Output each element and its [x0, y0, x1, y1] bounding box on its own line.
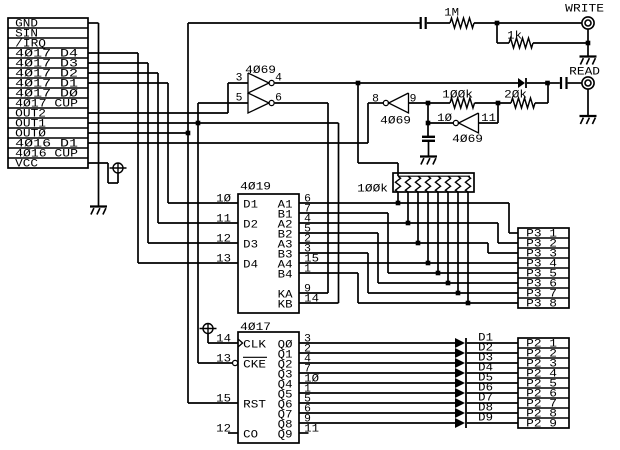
svg-text:4Ø17: 4Ø17	[240, 322, 271, 334]
svg-text:11: 11	[481, 113, 496, 125]
U3 pin name KB	[278, 300, 293, 312]
pin label 4	[275, 73, 282, 85]
label 100k (RN1)	[357, 184, 388, 196]
junction OUT1/pin5	[196, 121, 201, 126]
ground symbol (READ)	[580, 116, 597, 124]
svg-text:D1: D1	[243, 200, 258, 212]
wire OUT2 to U1A pin3	[88, 83, 248, 113]
svg-text:READ: READ	[569, 67, 600, 79]
wire RN1 column 3	[417, 192, 419, 243]
ground symbol (C3)	[420, 157, 437, 165]
U3 pin number 11	[216, 214, 231, 226]
P2 pin label 7	[526, 399, 557, 411]
resistor R4 20k	[511, 98, 535, 108]
P3 pin label 3	[526, 249, 557, 261]
U4 pin number 10 (Q4)	[304, 374, 319, 386]
diode D4	[455, 368, 465, 378]
junction OUT0	[186, 131, 191, 136]
U3 pin number 14 right	[304, 294, 319, 306]
IC U4 4017 body	[238, 332, 299, 443]
svg-text:3: 3	[236, 73, 243, 85]
wire diode to cap	[527, 82, 548, 84]
ground symbol (P1 GND)	[90, 207, 107, 215]
U4 pin name CKE	[243, 357, 267, 371]
diode D2	[455, 348, 465, 358]
U4 pin number 11 (Q9)	[304, 424, 319, 436]
wire Q4 to diode D5	[299, 382, 455, 384]
wire 4017 D2 to 4019 D2	[88, 73, 238, 223]
svg-text:4Ø69: 4Ø69	[245, 65, 276, 77]
wire diode D4 to P2-4	[467, 372, 518, 374]
diode D6	[455, 388, 465, 398]
wire RN1 column 5	[437, 192, 439, 273]
U4 pin name Q4	[278, 380, 293, 392]
wire 4017 D4 to 4019 D4	[88, 53, 238, 263]
U3 pin number 3 right	[304, 244, 311, 256]
wire GND from P1 to ground	[88, 23, 99, 207]
U4 pin name Q6	[278, 400, 293, 412]
label 100k (R3)	[442, 90, 473, 102]
connector READ jack	[582, 77, 594, 89]
wire RN1 column 4	[427, 192, 429, 263]
U3 pin name B3	[278, 250, 293, 262]
wire 4017 D1 to 4019 D1	[88, 83, 238, 203]
svg-text:VCC: VCC	[15, 159, 38, 171]
U3 pin number 10	[216, 194, 231, 206]
U3 pin name A1	[278, 200, 293, 212]
label 4017	[240, 322, 271, 334]
svg-text:P2 9: P2 9	[526, 419, 557, 431]
svg-text:11: 11	[216, 214, 231, 226]
svg-text:12: 12	[216, 234, 231, 246]
wire A4 to P3-4	[299, 262, 518, 264]
pin label 6	[275, 93, 282, 105]
connector P2	[518, 338, 569, 428]
wire Q2 to diode D3	[299, 362, 455, 364]
U4 pin name Q1	[278, 350, 293, 362]
U3 pin number 6 right	[304, 194, 311, 206]
svg-text:D2: D2	[243, 220, 258, 232]
wire diode D2 to P2-2	[467, 352, 518, 354]
junction RN1 column 2	[406, 221, 411, 226]
label D9	[478, 413, 493, 425]
op-amp U1A inverter 4069 pins 3-4	[248, 73, 274, 93]
U3 pin name D3	[243, 240, 258, 252]
U4 pin number 1 (Q5)	[304, 384, 311, 396]
svg-text:CKE: CKE	[243, 360, 266, 372]
P3 pin label 7	[526, 289, 557, 301]
P1 pin label SIN	[15, 29, 38, 41]
U4 pin number 5 (Q6)	[304, 394, 311, 406]
U3 pin name D2	[243, 220, 258, 232]
U4 pin Q9 stub	[299, 432, 309, 434]
P2 pin label 6	[526, 389, 557, 401]
wire Q0 to diode D1	[299, 342, 455, 344]
resistor network RN1 100k	[393, 173, 474, 192]
P3 pin label 1	[526, 229, 557, 241]
svg-text:5: 5	[236, 93, 243, 105]
connector WRITE jack	[582, 17, 594, 29]
wire RN1 column 7	[457, 192, 459, 293]
P1 pin label GND	[15, 19, 38, 31]
U4 pin number 15	[216, 394, 231, 406]
label 4069 (U2A)	[380, 116, 411, 128]
junction pin4/feed	[356, 81, 361, 86]
wire OUT1 bus	[88, 103, 339, 363]
U3 pin number 2 right	[304, 234, 311, 246]
P2 pin label 3	[526, 359, 557, 371]
U4 pin number 6 (Q7)	[304, 404, 311, 416]
U3 pin number 12	[216, 234, 231, 246]
label D8	[478, 403, 493, 415]
U4 pin number 2 (Q1)	[304, 344, 311, 356]
wire Q5 to diode D6	[299, 392, 455, 394]
wire R1 to WRITE jack	[474, 22, 582, 24]
P2 pin label 4	[526, 369, 557, 381]
terminal VCC	[110, 163, 127, 173]
U4 pin number 3 (Q0)	[304, 334, 311, 346]
wire diode D8 to P2-8	[467, 412, 518, 414]
U3 pin name A2	[278, 220, 293, 232]
wire 4016 D1 from U2 pin8	[88, 103, 383, 143]
P1 pin label VCC	[15, 159, 38, 171]
svg-text:1Ø: 1Ø	[216, 194, 231, 206]
connector P3	[518, 228, 569, 308]
U4 pin name CO	[243, 430, 258, 442]
wire Q1 to diode D2	[299, 352, 455, 354]
U4 pin name Q2	[278, 360, 293, 372]
junction pin10	[426, 121, 431, 126]
U4 pin name Q9	[278, 430, 293, 442]
op-amp U2B inverter 4069 pins 10-11	[453, 113, 478, 133]
wire B4 to P3-8	[299, 273, 518, 303]
wire OUT0 bus	[88, 23, 420, 403]
U4 pin name RST	[243, 400, 266, 412]
svg-text:1M: 1M	[444, 8, 459, 20]
pin label 8	[372, 94, 379, 106]
P2 pin label 1	[526, 339, 557, 351]
U4 pin number 13	[216, 354, 231, 366]
svg-text:CLK: CLK	[243, 340, 266, 352]
op-amp U1B inverter 4069 pins 5-6	[248, 93, 274, 113]
wire U1A pin4 output	[275, 83, 518, 176]
svg-text:1ØØk: 1ØØk	[442, 90, 473, 102]
svg-text:12: 12	[216, 424, 231, 436]
U3 pin number 13	[216, 254, 231, 266]
P2 pin label 8	[526, 409, 557, 421]
label 1M	[444, 8, 459, 20]
connector P1 (edge connector, 15 pins)	[8, 18, 88, 168]
capacitor C3	[422, 137, 435, 157]
wire B1 to P3-5	[299, 213, 518, 273]
svg-text:KB: KB	[278, 300, 293, 312]
junction pin9	[426, 101, 431, 106]
U3 pin number 9 right	[304, 284, 311, 296]
wire diode D9 to P2-9	[467, 422, 518, 424]
wire READ jack to ground	[587, 89, 589, 116]
label WRITE	[565, 4, 604, 16]
diode D3	[455, 358, 465, 368]
P1 pin label OUT1	[15, 119, 46, 131]
svg-text:D4: D4	[243, 260, 258, 272]
P1 pin label 4017 D4	[15, 49, 78, 61]
terminal CLK	[200, 324, 217, 334]
capacitor C2	[548, 77, 583, 89]
U3 pin name B2	[278, 230, 293, 242]
label 4069 (U1)	[245, 65, 276, 77]
U3 pin number 15 right	[304, 254, 319, 266]
svg-text:D3: D3	[243, 240, 258, 252]
wire diode D1 to P2-1	[467, 342, 518, 344]
wire RN1 column 1	[397, 192, 399, 203]
wire R4 to diode junction	[535, 83, 548, 103]
label 1k	[507, 31, 522, 43]
P3 pin label 5	[526, 269, 557, 281]
wire RN1 column 8	[467, 192, 469, 303]
P1 pin label 4017 D1	[15, 79, 78, 91]
P1 pin label OUT2	[15, 109, 46, 121]
svg-text:13: 13	[216, 354, 231, 366]
label 4019	[240, 182, 271, 194]
svg-text:P3 8: P3 8	[526, 299, 557, 311]
diode D7	[455, 398, 465, 408]
U3 pin name B1	[278, 210, 293, 222]
P2 pin label 9	[526, 419, 557, 431]
wire pin9 to R3	[409, 102, 451, 104]
U3 pin name D1	[243, 200, 258, 212]
svg-text:4Ø19: 4Ø19	[240, 182, 271, 194]
resistor R2 1k	[509, 38, 533, 48]
wire pin10 output	[428, 103, 453, 137]
wire CLK	[208, 334, 238, 344]
svg-text:14: 14	[304, 294, 319, 306]
pin label 10	[437, 113, 452, 125]
diode D5	[455, 378, 465, 388]
wire RN1 column 2	[407, 192, 409, 223]
U4 pin name Q8	[278, 420, 293, 432]
junction RN1 column 4	[426, 261, 431, 266]
P2 pin label 2	[526, 349, 557, 361]
junction R1/R2	[495, 21, 500, 26]
P1 pin label 4017 D0	[15, 89, 79, 101]
U3 pin number 7 right	[304, 204, 311, 216]
svg-text:4Ø69: 4Ø69	[452, 134, 483, 146]
pin label 3	[236, 73, 243, 85]
label D5	[478, 373, 493, 385]
U4 pin name CLK	[243, 340, 266, 352]
U3 pin name B4	[278, 270, 293, 282]
svg-text:1k: 1k	[507, 31, 522, 43]
svg-text:15: 15	[216, 394, 231, 406]
wire 4017 D3 to 4019 D3	[88, 63, 238, 243]
P3 pin label 8	[526, 299, 557, 311]
U4 pin CO stub	[228, 432, 238, 434]
wire U1B pin6 to 4019 KA	[275, 103, 328, 293]
U4 pin name Q5	[278, 390, 293, 402]
P1 pin label 4017 D3	[15, 59, 78, 71]
wire diode D3 to P2-3	[467, 362, 518, 364]
svg-text:B4: B4	[278, 270, 293, 282]
pin label 5	[236, 93, 243, 105]
wire RN1 column 6	[447, 192, 449, 283]
wire B2 to P3-6	[299, 233, 518, 283]
svg-text:Q9: Q9	[278, 430, 293, 442]
ground symbol (WRITE)	[580, 57, 597, 65]
label 4069 (U2B)	[452, 134, 483, 146]
U4 pin number 7 (Q3)	[304, 364, 311, 376]
wire diode D5 to P2-5	[467, 382, 518, 384]
wire R3 to R4	[475, 102, 512, 104]
diode cathode bar column	[465, 338, 467, 428]
label 20k	[504, 90, 527, 102]
wire B3 to P3-7	[299, 253, 518, 293]
svg-text:14: 14	[216, 334, 231, 346]
svg-text:9: 9	[410, 94, 417, 106]
label D4	[478, 363, 493, 375]
diode D9	[455, 418, 465, 428]
pin label 11	[481, 113, 496, 125]
wire R2 to WRITE ground	[533, 29, 588, 57]
P1 pin label 4017 CUP	[15, 99, 78, 111]
P1 pin label 4016 D1	[15, 139, 78, 151]
label D1	[478, 333, 493, 345]
svg-text:CO: CO	[243, 430, 258, 442]
P1 pin label OUT0	[15, 129, 46, 141]
junction RN1 column 5	[436, 271, 441, 276]
U4 pin name Q7	[278, 410, 293, 422]
P1 pin label 4017 D2	[15, 69, 78, 81]
pin label 9	[410, 94, 417, 106]
P3 pin label 2	[526, 239, 557, 251]
U4 pin number 9 (Q8)	[304, 414, 311, 426]
U4 CKE bubble	[233, 360, 238, 365]
junction RN1 column 7	[456, 291, 461, 296]
U3 pin name A3	[278, 240, 293, 252]
U4 pin name Q3	[278, 370, 293, 382]
wire Q3 to diode D4	[299, 372, 455, 374]
svg-text:11: 11	[304, 424, 319, 436]
U3 pin number 4 right	[304, 214, 311, 226]
P2 pin label 5	[526, 379, 557, 391]
U3 pin number 1 right	[304, 264, 311, 276]
U4 pin number 4 (Q2)	[304, 354, 311, 366]
label D6	[478, 383, 493, 395]
P1 pin label 4016 CUP	[15, 149, 78, 161]
wire A2 to P3-2	[299, 223, 518, 243]
U4 pin name Q0	[278, 340, 293, 352]
U3 pin name D4	[243, 260, 258, 272]
U3 pin name A4	[278, 260, 293, 272]
wire diode D7 to P2-7	[467, 402, 518, 404]
resistor R1 1M	[450, 18, 474, 28]
wire Q6 to diode D7	[299, 402, 455, 404]
U3 pin name KA	[278, 290, 293, 302]
P3 pin label 6	[526, 279, 557, 291]
U4 pin number 12	[216, 424, 231, 436]
wire Q7 to diode D8	[299, 412, 455, 414]
label D2	[478, 343, 493, 355]
U4 pin number 14	[216, 334, 231, 346]
junction below WRITE	[586, 41, 591, 46]
op-amp U2A inverter 4069 pins 8-9	[383, 93, 408, 113]
P3 pin label 4	[526, 259, 557, 271]
svg-text:2Øk: 2Øk	[504, 90, 527, 102]
wire diode D6 to P2-6	[467, 392, 518, 394]
U4 CLK chevron	[238, 339, 243, 347]
junction RN1 column 8	[466, 301, 471, 306]
diode D1	[455, 338, 465, 348]
svg-text:WRITE: WRITE	[565, 4, 604, 16]
svg-text:13: 13	[216, 254, 231, 266]
label READ	[569, 67, 600, 79]
svg-text:8: 8	[372, 94, 379, 106]
wire VCC from P1	[88, 163, 118, 183]
junction RN1 column 1	[396, 201, 401, 206]
label D7	[478, 393, 493, 405]
wire A3 to P3-3	[299, 243, 518, 253]
IC U3 4019 body	[238, 194, 299, 313]
svg-text:1: 1	[304, 264, 311, 276]
junction R3/R4/pin11	[496, 101, 501, 106]
label D3	[478, 353, 493, 365]
resistor R3 100k	[450, 98, 475, 108]
wire junction to R2 1k	[497, 23, 509, 43]
diode D10	[518, 78, 526, 88]
wire Q8 to diode D9	[299, 422, 455, 424]
junction RN1 column 6	[446, 281, 451, 286]
junction RN1 column 3	[416, 241, 421, 246]
wire A1 to P3-1	[299, 203, 518, 233]
U3 pin number 5 right	[304, 224, 311, 236]
wire pin11 input	[479, 103, 499, 123]
diode D8	[455, 408, 465, 418]
junction diode/cap/20k	[545, 81, 550, 86]
svg-text:1ØØk: 1ØØk	[357, 184, 388, 196]
P1 pin label /IRQ	[15, 39, 46, 51]
capacitor C1	[421, 17, 450, 29]
svg-text:RST: RST	[243, 400, 266, 412]
svg-text:4Ø69: 4Ø69	[380, 116, 411, 128]
